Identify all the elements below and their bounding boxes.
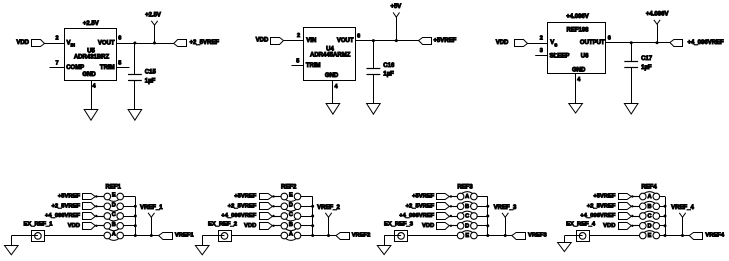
bus wire REF2 [312,197,314,236]
ground (EX_REF_1) [5,246,19,255]
svg-text:1µF: 1µF [383,71,394,77]
wire REF4 row B to bus [660,206,665,208]
input tag +2_5VREF (REF2) [228,203,281,210]
wire stub pin 7 COMP [50,67,66,69]
svg-text:TRIM: TRIM [100,65,115,71]
svg-text:+4_096VREF: +4_096VREF [688,40,725,46]
node junction VREF_4 stem [681,234,684,237]
svg-text:6: 6 [118,36,121,42]
wire REF3 row C to bus [477,216,488,218]
wire EX_REF_1 to jumper [44,235,104,237]
svg-text:A: A [289,232,293,238]
svg-text:A: A [112,232,116,238]
input tag +5VREF (REF2) [234,194,281,200]
wire C15 to ground [134,80,136,110]
input tag +4_096VREF (REF1) [45,213,104,220]
svg-text:VREF2: VREF2 [352,233,371,239]
node junction VREF_2 stem [327,234,330,237]
ground (C17) [624,104,638,115]
wire OUTPUT pin 6 to +4_096VREF tag [606,42,670,44]
node junction at +2.5V branch [153,42,156,45]
svg-text:EX_REF_4: EX_REF_4 [566,221,596,227]
svg-text:EX_REF_3: EX_REF_3 [384,221,414,227]
jumper REF1 position C [104,212,123,221]
wire EX_REF_3 to jumper [408,235,458,237]
svg-text:E: E [648,233,652,239]
output tag +5VREF [419,38,432,45]
svg-text:VREF_4: VREF_4 [671,205,694,211]
svg-text:+2_5VREF: +2_5VREF [228,204,257,210]
jumper REF3 position B [457,201,477,210]
node junction bus row C [664,215,667,218]
node junction at C17 branch [630,41,633,44]
ground (C16) [367,104,381,115]
wire pin 4 GND [575,74,577,104]
connector EX_REF_2 [208,221,237,241]
node junction bus bottom row [486,234,489,237]
jumper REF2 position B [281,222,301,231]
jumper REF3 position E [457,231,477,240]
svg-text:7: 7 [55,60,58,66]
svg-text:GND: GND [82,72,96,78]
node junction bus row B [486,205,489,208]
node junction at C16 branch [372,39,375,42]
svg-text:C: C [112,212,116,218]
output tag +2_5VREF [174,40,187,47]
svg-text:VDD: VDD [256,38,269,44]
wire EX_REF_2 to ground [202,235,218,237]
jumper REF3 position D [457,221,477,230]
svg-text:C: C [647,214,651,220]
bus wire REF4 [665,197,667,236]
wire VDD to pin 2 [284,40,304,42]
svg-text:VDD: VDD [244,223,256,229]
wire REF4 output row [665,235,689,237]
svg-text:VS: VS [550,40,557,47]
svg-text:GND: GND [325,73,339,79]
ground (U6 pin 4) [569,104,583,114]
svg-text:+2_5VREF: +2_5VREF [587,204,616,210]
svg-text:A: A [647,194,651,200]
node junction at +5V branch [395,39,398,42]
wire REF3 row E to bus [477,235,488,237]
svg-text:D: D [112,202,116,208]
svg-text:OUTPUT: OUTPUT [580,40,605,46]
jumper REF2 position C [281,212,301,221]
svg-text:C: C [289,212,293,218]
wire REF3 row B to bus [477,206,488,208]
svg-text:B: B [465,204,469,210]
svg-text:REF4: REF4 [641,185,657,191]
svg-text:VREF4: VREF4 [705,233,724,239]
output tag VREF1 [159,233,173,240]
svg-text:E: E [465,233,469,239]
power flag VREF_3 [494,205,517,235]
input tag VDD (REF4) [603,223,639,230]
wire VOUT pin 6 to +5VREF tag [356,40,419,42]
node junction VREF_1 stem [150,234,153,237]
svg-text:5: 5 [118,60,121,66]
jumper REF4 position A [640,192,660,201]
svg-text:+5VREF: +5VREF [412,194,435,200]
svg-text:+5VREF: +5VREF [433,38,456,44]
svg-text:ADR431BRZ: ADR431BRZ [74,55,110,61]
wire REF2 row E to bus [301,196,313,198]
capacitor C16 1uF [367,63,395,77]
wire stub pin 5 TRIM [117,67,130,69]
svg-text:1µF: 1µF [641,65,652,71]
svg-text:+4.096V: +4.096V [566,14,589,20]
jumper REF3 position A [457,192,477,201]
svg-text:U5: U5 [87,48,95,54]
svg-text:+4_096VREF: +4_096VREF [45,213,80,219]
node junction bus row C [311,215,314,218]
wire EX_REF_1 to ground [11,235,31,237]
svg-text:1µF: 1µF [145,79,156,85]
input tag +4_096VREF (REF2) [221,213,281,220]
svg-text:U6: U6 [581,54,589,60]
wire REF1 output row [135,235,158,237]
svg-text:VDD: VDD [68,223,80,229]
node junction bus row D [486,224,489,227]
wire REF2 row B to bus [301,225,313,227]
svg-text:U4: U4 [326,46,334,52]
wire VOUT pin 6 to +2_5VREF tag [117,43,174,45]
wire REF1 row D to bus [124,206,136,208]
svg-text:EX_REF_1: EX_REF_1 [24,221,54,227]
ground (C15) [128,110,142,121]
svg-text:D: D [647,223,651,229]
output tag +4_096VREF [670,40,683,47]
wire REF2 row C to bus [301,216,313,218]
svg-text:EX_REF_2: EX_REF_2 [208,221,237,227]
svg-text:+5VREF: +5VREF [58,194,81,200]
wire EX_REF_3 to ground [384,235,395,237]
wire REF4 row C to bus [660,216,665,218]
jumper REF1 position A [104,232,123,241]
input tag +5VREF (REF1) [58,194,104,200]
wire VDD to pin 2 [45,43,66,45]
svg-text:C17: C17 [641,56,653,62]
svg-text:+5VREF: +5VREF [593,194,616,200]
svg-text:+2_5VREF: +2_5VREF [406,204,435,210]
svg-text:A: A [465,194,469,200]
svg-text:+2_5VREF: +2_5VREF [190,40,220,46]
power +4.096V rail [646,12,669,43]
svg-text:5: 5 [296,58,299,64]
svg-text:C: C [465,214,469,220]
node junction bus bottom row [664,234,667,237]
svg-text:+2_5VREF: +2_5VREF [51,204,80,210]
wire REF2 row D to bus [301,206,313,208]
wire EX_REF_4 to jumper [589,235,639,237]
jumper REF4 position E [640,231,660,240]
op-amp U5 ADR431BRZ body [65,29,117,81]
wire REF2 row A to bus [301,235,313,237]
connector EX_REF_3 [384,221,414,241]
node junction bus row C [134,215,137,218]
output tag VREF2 [336,233,350,240]
svg-text:SLEEP: SLEEP [550,54,570,60]
wire down to C15 [134,43,136,74]
svg-text:VIN: VIN [67,40,75,47]
svg-text:C16: C16 [383,63,395,69]
jumper REF1 position B [104,222,123,231]
svg-text:6: 6 [357,33,360,39]
svg-text:+2.5V: +2.5V [83,21,99,27]
jumper REF4 position D [640,221,660,230]
wire VDD to pin 2 [527,43,547,45]
node junction bus bottom row [311,234,314,237]
jumper REF2 position A [281,232,301,241]
node junction at +4.096V branch [656,41,659,44]
node junction bus bottom row [134,234,137,237]
jumper REF1 position D [104,202,123,211]
svg-text:VDD: VDD [496,40,509,46]
svg-text:+2.5V: +2.5V [145,13,161,19]
node junction bus row C [486,215,489,218]
jumper REF4 position B [640,201,660,210]
input tag +2_5VREF (REF3) [406,203,458,210]
capacitor C15 1uF [128,69,156,84]
svg-text:E: E [112,193,116,199]
power +5V rail [390,4,401,40]
svg-text:VDD: VDD [422,223,434,229]
power +2.5V rail [145,13,161,43]
jumper REF2 position D [281,202,301,211]
node junction bus row D [311,205,314,208]
svg-text:ADR445ARMZ: ADR445ARMZ [310,53,351,59]
input tag VDD (REF2) [244,223,281,230]
node junction bus row B [311,224,314,227]
wire REF1 row B to bus [124,225,136,227]
op-amp U4 ADR445ARMZ body [304,28,356,81]
svg-text:REF3: REF3 [457,185,473,191]
ground (EX_REF_4) [558,243,572,252]
wire C17 to ground [631,68,633,104]
svg-text:B: B [647,204,651,210]
svg-text:VREF_2: VREF_2 [317,205,340,211]
connector EX_REF_1 [24,221,54,241]
power flag VREF_2 [317,205,340,235]
wire EX_REF_2 to jumper [231,235,281,237]
svg-text:+4_096VREF: +4_096VREF [580,213,615,219]
wire stub pin 3 SLEEP [535,55,547,57]
wire REF3 output row [488,235,512,237]
op-amp U6 REF198 body [548,23,606,74]
wire pin 4 GND [332,81,334,104]
power flag VREF_1 [140,205,163,235]
svg-text:+4.096V: +4.096V [646,12,669,18]
svg-text:VDD: VDD [603,223,615,229]
connector EX_REF_4 [566,221,596,241]
wire REF2 output row [313,235,336,237]
wire REF1 row C to bus [124,216,136,218]
wire REF4 row D to bus [660,225,665,227]
wire down to C17 [631,43,633,62]
input tag +5VREF (REF3) [412,194,457,200]
wire down to C16 [373,41,375,69]
svg-text:TRIM: TRIM [306,63,321,69]
ground (EX_REF_2) [195,246,209,255]
svg-text:6: 6 [608,36,611,42]
svg-text:VOUT: VOUT [337,38,354,44]
node junction at C15 branch [133,42,136,45]
jumper REF2 position E [281,193,301,202]
svg-text:2: 2 [297,33,300,39]
wire stub pin 5 TRIM [292,65,305,67]
svg-text:E: E [289,193,293,199]
svg-text:+4_096VREF: +4_096VREF [399,213,434,219]
ground (EX_REF_3) [377,246,391,255]
svg-text:VREF3: VREF3 [528,233,547,239]
input tag VDD (REF1) [68,223,104,230]
svg-text:D: D [465,223,469,229]
output tag VREF4 [689,233,702,240]
svg-text:+4_096VREF: +4_096VREF [221,213,256,219]
svg-text:B: B [112,222,116,228]
svg-text:REF2: REF2 [281,185,297,191]
wire pin 4 GND [91,81,93,110]
svg-text:VIN: VIN [306,38,316,44]
power flag VREF_4 [671,205,694,235]
bus wire REF3 [487,197,489,236]
svg-text:REF198: REF198 [566,28,589,34]
capacitor C17 1uF [624,56,652,71]
node junction bus row D [664,224,667,227]
input tag +2_5VREF (REF4) [587,203,640,210]
input tag +4_096VREF (REF4) [580,213,639,220]
input tag VDD (REF3) [422,223,457,230]
node junction bus row B [664,205,667,208]
input tag +2_5VREF (REF1) [51,203,104,210]
svg-text:2: 2 [55,36,58,42]
svg-text:B: B [289,222,293,228]
svg-text:VREF1: VREF1 [175,233,194,239]
svg-text:VREF_1: VREF_1 [140,205,163,211]
svg-text:VREF_3: VREF_3 [494,205,517,211]
input tag +5VREF (REF4) [593,194,639,200]
svg-text:3: 3 [540,48,543,54]
node junction bus row B [134,224,137,227]
input tag +4_096VREF (REF3) [399,213,457,220]
svg-text:C15: C15 [145,69,157,75]
wire REF1 row E to bus [124,196,136,198]
svg-text:2: 2 [540,36,543,42]
svg-text:GND: GND [572,67,586,73]
svg-text:REF1: REF1 [106,185,122,191]
wire REF3 row A to bus [477,196,488,198]
wire REF4 row A to bus [660,196,665,198]
ground (U5 pin 4) [84,110,98,121]
svg-text:+5V: +5V [390,4,401,10]
svg-text:VDD: VDD [16,40,29,46]
bus wire REF1 [135,197,137,236]
wire REF1 row A to bus [124,235,136,237]
wire REF3 row D to bus [477,225,488,227]
svg-text:COMP: COMP [66,65,84,71]
ground (U4 pin 4) [326,104,340,115]
jumper REF1 position E [104,193,123,202]
wire REF4 row E to bus [660,235,665,237]
jumper REF4 position C [640,211,660,220]
svg-text:VOUT: VOUT [98,40,115,46]
svg-text:+5VREF: +5VREF [234,194,257,200]
node junction bus row D [134,205,137,208]
jumper REF3 position C [457,211,477,220]
node junction VREF_3 stem [504,234,507,237]
wire C16 to ground [373,74,375,104]
svg-text:D: D [289,202,293,208]
output tag VREF3 [512,233,526,240]
wire EX_REF_4 to ground [564,235,576,237]
